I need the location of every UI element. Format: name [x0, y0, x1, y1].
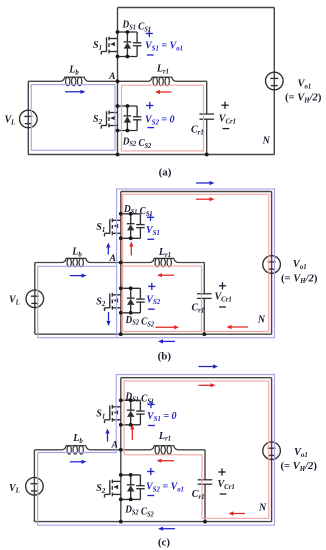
wire: fig(c) switch branch vertical: [120, 378, 122, 522]
node: DS2 top junction (fig b): [129, 286, 133, 290]
wire: fig(c) right rail with output source: [271, 378, 273, 522]
wire: S2 snubber frame (fig b): [121, 288, 141, 313]
node A junction (fig b): [119, 261, 123, 265]
node: DS1 bottom junction (fig a): [126, 55, 130, 59]
node: DS1 bottom junction (fig c): [129, 423, 133, 427]
diode DS1 (fig c): [127, 400, 135, 425]
node: S2 drain junction (fig a): [116, 104, 120, 108]
voltage source VL (fig a): [20, 110, 38, 128]
transistor S1 (fig b): [105, 218, 121, 236]
minus sign of VS1 (fig a): [147, 54, 154, 56]
wire: blue current loop (fig c): [38, 375, 275, 526]
red up arrow into S1 (fig c): [130, 425, 134, 441]
node: Cr1 to bottom rail (fig b): [202, 332, 206, 336]
wire: fig(a) bottom rail: [28, 154, 274, 156]
node: Cr1 to bottom rail (fig c): [203, 520, 207, 524]
node: DS1 top junction (fig a): [126, 30, 130, 34]
node: DS2 bottom junction (fig c): [129, 498, 133, 502]
minus sign of VCr1 (fig c): [220, 493, 227, 495]
diode DS1 (fig a): [124, 32, 132, 57]
capacitor Cr1 (fig a): [199, 114, 214, 119]
node: S2 drain junction (fig c): [119, 473, 123, 477]
node: DS1 top junction (fig c): [129, 398, 133, 402]
inductor Lb (fig a): [61, 77, 89, 86]
wire: fig(c) bottom rail: [34, 521, 271, 523]
svg-text:VS1 = 0: VS1 = 0: [147, 411, 177, 423]
node: S1 source junction (fig b): [119, 236, 123, 240]
wire: blue current loop (fig b): [38, 189, 275, 338]
red current arrow under Lr1 (fig c): [157, 459, 175, 463]
blue up arrow into S1 (fig c): [105, 429, 109, 442]
minus sign of VS1 (fig b): [147, 238, 154, 240]
wire: red current loop (fig b): [123, 194, 269, 331]
node: S1 drain junction (fig b): [119, 212, 123, 216]
plus sign of VCr1 (fig a): [221, 102, 228, 109]
plus sign of VCr1 (fig b): [219, 282, 226, 289]
node A junction (fig a): [116, 79, 120, 83]
svg-text:(a): (a): [159, 166, 172, 178]
wire: blue input-current loop (fig a): [31, 85, 115, 151]
inductor Lr1 (fig a): [148, 77, 176, 86]
red left arrow on bottom rail from N (fig b): [227, 325, 249, 329]
node: switch branch to bottom rail (fig a): [116, 153, 120, 157]
node: S1 source junction (fig c): [119, 423, 123, 427]
wire: fig(a) left rail of input loop: [27, 81, 29, 154]
transistor S2 (fig c): [105, 480, 121, 498]
capacitor CS2 (fig b): [136, 288, 145, 313]
blue current arrow under Lb (fig b): [70, 274, 87, 278]
wire: fig(b) left rail of input loop: [34, 263, 36, 335]
voltage source VL (fig c): [26, 478, 44, 496]
svg-text:(= VH/2): (= VH/2): [281, 461, 318, 473]
svg-text:(= VH/2): (= VH/2): [281, 273, 318, 285]
node: S1 drain junction (fig c): [119, 398, 123, 402]
wire: red current loop (fig c): [124, 381, 269, 518]
inductor Lb (fig c): [62, 446, 90, 455]
wire: S2 snubber frame (fig a): [118, 106, 138, 131]
wire: fig(a) top rail from S1 drain to output branch: [118, 7, 275, 9]
node: DS2 top junction (fig c): [129, 473, 133, 477]
inductor Lr1 (fig b): [150, 258, 178, 267]
red current arrow top rail (fig c): [199, 383, 216, 387]
minus sign of VS2 (fig b): [148, 308, 155, 310]
node: switch branch to bottom rail (fig c): [119, 520, 123, 524]
wire: fig(b) top rail: [121, 191, 272, 193]
node: S1 drain junction (fig a): [116, 30, 120, 34]
capacitor CS1 (fig b): [136, 214, 145, 239]
node: Cr1 to bottom rail (fig a): [205, 153, 209, 157]
capacitor Cr1 (fig b): [197, 294, 212, 299]
blue current arrow under Lb (fig c): [70, 460, 87, 464]
inductor Lb (fig b): [62, 258, 90, 267]
minus sign of VCr1 (fig a): [223, 128, 230, 130]
voltage source VL (fig b): [26, 290, 44, 308]
plus sign of VCr1 (fig c): [218, 468, 225, 475]
node: DS2 bottom junction (fig a): [126, 129, 130, 133]
svg-text:N: N: [258, 503, 267, 514]
wire: S1 snubber frame (fig a): [118, 32, 138, 57]
transistor S2 (fig b): [105, 293, 121, 311]
diode DS2 (fig a): [124, 106, 132, 131]
plus sign of VS1 (fig c): [147, 401, 154, 408]
svg-text:A: A: [108, 72, 115, 82]
svg-text:(b): (b): [158, 350, 172, 362]
node: DS2 top junction (fig a): [126, 104, 130, 108]
node: S1 source junction (fig a): [116, 55, 120, 59]
wire: fig(c) left rail of input loop: [33, 450, 35, 522]
wire: red resonant-current loop (fig a): [122, 85, 204, 151]
svg-text:A: A: [111, 440, 118, 450]
wire: fig(a) right rail with output source: [273, 8, 275, 155]
node: S2 source junction (fig a): [116, 129, 120, 133]
capacitor CS2 (fig a): [133, 106, 142, 131]
plus sign of VS2 (fig a): [146, 102, 153, 109]
diode DS2 (fig c): [127, 475, 135, 500]
wire: fig(a) Cr1 branch: [206, 81, 208, 154]
minus sign of VS1 (fig c): [148, 425, 155, 427]
wire: S1 snubber frame (fig b): [121, 214, 141, 239]
voltage source Vo1 (fig a): [266, 72, 284, 90]
svg-text:VS2 = 0: VS2 = 0: [145, 115, 175, 127]
wire: fig(a) switch branch vertical S1/A/S2: [117, 8, 119, 155]
wire: fig(b) middle rail VL-Lb-A-Lr1-Cr1: [35, 262, 205, 264]
transistor S2 (fig a): [101, 111, 117, 129]
plus sign of VS2 (fig c): [147, 468, 154, 475]
svg-text:(c): (c): [158, 537, 171, 549]
svg-text:N: N: [257, 315, 266, 326]
transistor S1 (fig a): [101, 37, 117, 55]
transistor S1 (fig c): [105, 405, 121, 423]
red up arrow into S1 (fig b): [129, 242, 133, 256]
blue up arrow into S1 (fig b): [106, 243, 110, 255]
node: S2 source junction (fig c): [119, 498, 123, 502]
capacitor Cr1 (fig c): [198, 480, 213, 484]
blue current arrow top rail (fig b): [196, 181, 215, 185]
plus sign of VS1 (fig b): [147, 214, 154, 221]
capacitor CS2 (fig c): [136, 475, 145, 500]
wire: fig(b) bottom rail: [35, 333, 272, 335]
node: S2 source junction (fig b): [119, 311, 123, 315]
wire: fig(c) middle rail VL-Lb-A-Lr1-Cr1: [34, 449, 205, 451]
red current arrow under Lr1 (fig b): [157, 273, 174, 277]
node: DS1 top junction (fig b): [129, 212, 133, 216]
blue current arrow top rail (fig c): [199, 364, 219, 368]
minus sign of VS2 (fig c): [147, 495, 154, 497]
wire: S2 snubber frame (fig c): [121, 475, 141, 500]
minus sign of VCr1 (fig b): [219, 306, 226, 308]
node: switch branch to bottom rail (fig b): [119, 332, 123, 336]
wire: fig(b) Cr1 branch: [203, 263, 205, 335]
red current arrow top rail (fig b): [196, 197, 215, 201]
node: DS1 bottom junction (fig b): [129, 236, 133, 240]
capacitor CS1 (fig a): [133, 32, 142, 57]
red right arrow on bottom rail toward Cr1 (fig b): [156, 325, 180, 329]
node: S2 drain junction (fig b): [119, 286, 123, 290]
capacitor CS1 (fig c): [136, 400, 145, 425]
node A junction (fig c): [119, 448, 123, 452]
voltage source Vo1 (fig b): [263, 256, 281, 274]
svg-text:(= VH/2): (= VH/2): [285, 93, 322, 105]
wire: fig(c) Cr1 branch: [204, 450, 206, 522]
blue down arrow through S2 (fig b): [106, 312, 110, 326]
voltage source Vo1 (fig c): [263, 442, 281, 460]
node: DS2 bottom junction (fig b): [129, 311, 133, 315]
red left arrow on bottom rail from N (fig c): [229, 511, 246, 515]
diode DS2 (fig b): [127, 288, 135, 313]
blue current arrow under Lb (fig a): [65, 90, 86, 94]
wire: fig(c) top rail: [121, 377, 272, 379]
diode DS1 (fig b): [127, 214, 135, 239]
wire: S1 snubber frame (fig c): [121, 400, 141, 425]
wire: fig(a) middle rail VL-Lb-A-Lr1-Cr1: [28, 80, 206, 82]
blue left arrow below bottom rail (fig b): [158, 339, 175, 343]
svg-text:N: N: [262, 136, 271, 147]
plus sign of VS2 (fig b): [148, 283, 155, 290]
blue left arrow below bottom rail (fig c): [158, 527, 175, 531]
wire: fig(b) right rail with output source: [271, 192, 273, 335]
svg-text:A: A: [109, 254, 116, 264]
plus sign of VS1 (fig a): [146, 30, 153, 37]
minus sign of VS2 (fig a): [147, 127, 154, 129]
inductor Lr1 (fig c): [150, 446, 178, 455]
red current arrow under Lr1 (fig a): [155, 90, 172, 94]
wire: fig(b) switch branch vertical: [120, 192, 122, 335]
